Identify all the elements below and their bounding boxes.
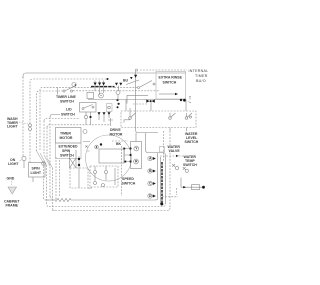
- svg-text:SWITCH: SWITCH: [61, 112, 75, 116]
- svg-text:SWITCH: SWITCH: [163, 81, 177, 85]
- svg-text:SWITCH: SWITCH: [183, 163, 197, 167]
- svg-text:LIGHT: LIGHT: [8, 162, 19, 166]
- svg-text:TIMER: TIMER: [60, 132, 71, 136]
- svg-text:SWITCH: SWITCH: [60, 154, 74, 158]
- svg-text:SPEED: SPEED: [122, 177, 134, 181]
- svg-text:DRIVE: DRIVE: [110, 128, 121, 132]
- svg-text:TIMER LINE: TIMER LINE: [56, 95, 76, 99]
- svg-text:MOTOR: MOTOR: [110, 133, 123, 137]
- svg-text:FRAME: FRAME: [6, 204, 19, 208]
- svg-text:SWITCH: SWITCH: [60, 100, 74, 104]
- svg-text:SWITCH: SWITCH: [122, 182, 136, 186]
- svg-text:BU: BU: [123, 79, 129, 83]
- svg-text:SPIN: SPIN: [32, 167, 41, 171]
- svg-text:SWITCH: SWITCH: [185, 140, 199, 144]
- svg-text:EXTRA RINSE: EXTRA RINSE: [159, 76, 183, 80]
- svg-text:TIMER: TIMER: [195, 74, 208, 78]
- svg-text:LIGHT: LIGHT: [7, 125, 18, 129]
- svg-text:EXTENDED: EXTENDED: [59, 145, 79, 149]
- svg-text:MOTOR: MOTOR: [60, 136, 73, 140]
- svg-text:BK: BK: [116, 142, 122, 146]
- svg-text:BU/O: BU/O: [196, 79, 206, 83]
- svg-text:LIGHT: LIGHT: [31, 171, 42, 175]
- svg-text:INTERNAL: INTERNAL: [189, 69, 209, 73]
- svg-text:GND: GND: [7, 177, 15, 181]
- svg-text:LID: LID: [66, 108, 72, 112]
